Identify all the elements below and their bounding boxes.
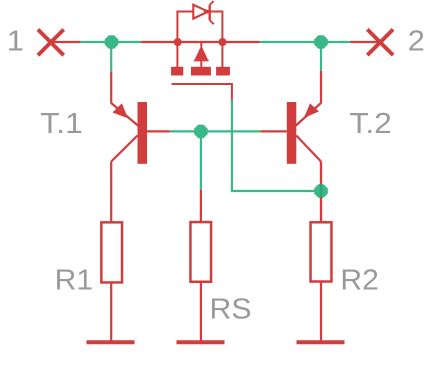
svg-text:T.1: T.1 bbox=[40, 108, 83, 140]
svg-text:R2: R2 bbox=[340, 265, 379, 297]
svg-text:2: 2 bbox=[408, 25, 425, 57]
svg-text:R1: R1 bbox=[55, 265, 93, 297]
svg-text:1: 1 bbox=[7, 26, 24, 58]
svg-text:RS: RS bbox=[210, 294, 252, 326]
svg-text:T.2: T.2 bbox=[349, 108, 392, 140]
